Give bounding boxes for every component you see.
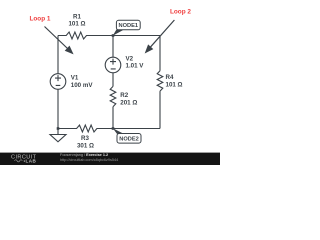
watermark bar [0, 153, 220, 165]
svg-text:http://circuitlab.com/c8qbc6z9: http://circuitlab.com/c8qbc6z9s544 [60, 158, 118, 162]
svg-text:Loop 1: Loop 1 [30, 15, 51, 22]
wire left upper [57, 36, 59, 74]
svg-text:101 Ω: 101 Ω [166, 81, 183, 88]
junction ground dot [57, 127, 60, 130]
annotation Loop 2 arrow [149, 20, 175, 49]
watermark logo LAB [15, 160, 23, 162]
resistor R1 [58, 32, 113, 39]
wire right upper [159, 36, 161, 71]
wire middle upper [112, 36, 114, 58]
resistor R2 [110, 86, 116, 106]
voltage source V2 [105, 57, 121, 73]
wire left lower [57, 89, 59, 128]
svg-text:R4: R4 [166, 74, 174, 81]
node label NODE2 [113, 128, 141, 143]
svg-text:100 mV: 100 mV [71, 82, 94, 89]
wire top right [113, 35, 160, 37]
svg-text:301 Ω: 301 Ω [77, 143, 94, 150]
component labels [68, 14, 182, 150]
bottom wire left + resistor R3 + to node2 [58, 125, 113, 132]
svg-text:201 Ω: 201 Ω [120, 99, 137, 106]
voltage source V1 [50, 74, 66, 90]
svg-text:1.01 V: 1.01 V [126, 62, 145, 69]
node label NODE1 [113, 20, 141, 36]
wire R2 to node2 [112, 107, 114, 129]
svg-text:Fooservnjang / Exercise 1.2: Fooservnjang / Exercise 1.2 [60, 153, 108, 157]
bottom wire right [113, 128, 160, 130]
svg-text:NODE2: NODE2 [119, 137, 139, 143]
svg-text:▪LAB: ▪LAB [24, 159, 37, 164]
wire right lower [159, 91, 161, 128]
junction node2 dot [112, 127, 115, 130]
svg-text:Loop 2: Loop 2 [170, 9, 191, 16]
wire V2 to R2 [112, 73, 114, 87]
svg-text:101 Ω: 101 Ω [68, 21, 85, 28]
svg-text:R3: R3 [81, 135, 89, 142]
junction node1 dot [112, 34, 115, 37]
annotation Loop 1 arrow [45, 27, 70, 51]
svg-text:NODE1: NODE1 [119, 23, 139, 29]
svg-text:R1: R1 [73, 14, 81, 21]
svg-text:V1: V1 [71, 74, 79, 81]
resistor R4 [157, 71, 163, 91]
ground [50, 129, 66, 142]
svg-text:R2: R2 [120, 92, 128, 99]
